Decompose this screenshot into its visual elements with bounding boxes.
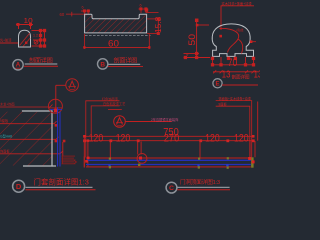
bubble A bbox=[13, 60, 23, 70]
svg-text:15.8: 15.8 bbox=[154, 16, 163, 33]
red dot in arch bbox=[25, 42, 27, 44]
rail blue top bbox=[86, 159, 251, 161]
chain tick dots bbox=[83, 135, 255, 142]
red horizontal inside circle bbox=[49, 107, 63, 109]
dim 50 vertical bbox=[184, 19, 211, 59]
junction marker x199 olive top bbox=[198, 158, 200, 160]
dimension 10 line bbox=[16, 24, 33, 30]
line from bubble to right with label bbox=[125, 121, 172, 123]
svg-text:70: 70 bbox=[228, 57, 238, 69]
red dots on frame edge bbox=[54, 109, 58, 113]
dim 70 under base bbox=[211, 57, 254, 67]
junction marker x227 olive top bbox=[227, 157, 229, 159]
svg-text:剖面详图: 剖面详图 bbox=[114, 56, 138, 64]
svg-text:1.2: 1.2 bbox=[33, 34, 38, 38]
svg-text:13: 13 bbox=[254, 70, 260, 81]
svg-text:4: 4 bbox=[186, 54, 190, 56]
svg-text:x贴缝: x贴缝 bbox=[236, 27, 244, 32]
title E underline grey bbox=[177, 186, 229, 188]
title E underline red bbox=[177, 189, 230, 191]
svg-text:13: 13 bbox=[222, 70, 231, 81]
svg-text:9厘板: 9厘板 bbox=[219, 101, 228, 106]
leader 2 bbox=[0, 121, 57, 124]
rail red top bbox=[86, 157, 251, 159]
callout circle on corner bbox=[48, 99, 62, 113]
svg-text:E: E bbox=[215, 82, 219, 88]
junction marker x227 blue bbox=[226, 164, 228, 166]
far right extension vertical bbox=[257, 102, 259, 141]
bubble C top-right bbox=[213, 79, 222, 88]
svg-text:B: B bbox=[100, 61, 105, 68]
left end post red bbox=[83, 156, 85, 167]
left small dot leader bbox=[196, 24, 199, 27]
rail red bottom bbox=[86, 166, 251, 168]
red jamb line bbox=[62, 142, 64, 156]
svg-text:120: 120 bbox=[205, 132, 220, 144]
bubble D bbox=[13, 180, 25, 192]
svg-text:6: 6 bbox=[82, 6, 84, 10]
title underline red bbox=[222, 84, 258, 86]
svg-text:C: C bbox=[169, 185, 174, 192]
title B underline red bbox=[108, 65, 143, 67]
svg-text:270: 270 bbox=[164, 133, 180, 145]
leader 3 bbox=[0, 137, 59, 140]
junction marker x199 blue bbox=[197, 164, 199, 166]
title B underline grey bbox=[109, 63, 141, 65]
right small dimension cluster bbox=[32, 29, 46, 48]
svg-text:门洞顶面详图1:3: 门洞顶面详图1:3 bbox=[180, 178, 220, 186]
svg-text:6: 6 bbox=[140, 4, 142, 8]
svg-text:白色乳胶漆工艺: 白色乳胶漆工艺 bbox=[103, 101, 125, 106]
title A underline grey bbox=[25, 63, 58, 65]
arch hatch bbox=[20, 33, 30, 46]
dim 13 row bbox=[213, 71, 258, 73]
dim 60 line bbox=[84, 46, 149, 48]
red decorative curves inside cap bbox=[220, 28, 239, 52]
blue jamb lines bbox=[57, 107, 59, 166]
dim 60 extension lines bbox=[83, 34, 85, 49]
svg-text:门套剖面详图1:3: 门套剖面详图1:3 bbox=[34, 178, 90, 187]
blue horizontal inside circle bbox=[50, 109, 62, 111]
leader 4 bbox=[0, 151, 63, 154]
leader wire bbox=[0, 42, 19, 44]
red dot at cap right edge bbox=[250, 40, 253, 43]
wall hatch region bbox=[0, 112, 52, 166]
section cut bubble bbox=[114, 116, 126, 128]
left end dots bbox=[87, 157, 90, 160]
junction marker x110 olive bottom bbox=[109, 166, 111, 168]
handrail profile outline bbox=[212, 24, 253, 57]
dim 15.8 vertical right bbox=[145, 9, 159, 35]
svg-text:实木扶手+饰面+清漆: 实木扶手+饰面+清漆 bbox=[222, 1, 253, 6]
callout circle on rails (red) bbox=[137, 154, 147, 164]
junction marker x110 olive top bbox=[109, 158, 111, 160]
bubble B bbox=[98, 59, 108, 69]
junction marker x199 olive bottom bbox=[198, 166, 200, 168]
svg-text:60: 60 bbox=[108, 38, 119, 49]
junction marker x227 olive bottom bbox=[227, 166, 229, 168]
section bubble above D bbox=[66, 79, 79, 92]
arch profile outline bbox=[19, 30, 31, 47]
svg-text:饰面板: 饰面板 bbox=[0, 148, 10, 153]
title D underline red bbox=[26, 189, 96, 191]
svg-text:木龙+饰面: 木龙+饰面 bbox=[0, 102, 15, 107]
top leader underline and drop bbox=[221, 6, 254, 30]
svg-text:2车边银镜平面装饰: 2车边银镜平面装饰 bbox=[151, 117, 178, 122]
svg-text:D: D bbox=[16, 182, 22, 191]
right end olive post bbox=[251, 157, 254, 167]
svg-text:50: 50 bbox=[187, 34, 197, 46]
title D underline grey bbox=[26, 186, 93, 188]
rail blue bottom bbox=[86, 164, 251, 166]
bubble C bottom bbox=[166, 182, 177, 193]
svg-text:60: 60 bbox=[60, 12, 65, 17]
dimension chain row B line bbox=[84, 140, 253, 142]
small top dim left bbox=[81, 6, 90, 15]
architrave ladder profile bbox=[62, 156, 77, 164]
svg-text:120: 120 bbox=[234, 132, 249, 144]
small top dim right bbox=[139, 4, 159, 14]
section bubble leader wire bbox=[56, 84, 66, 86]
svg-text:120: 120 bbox=[89, 132, 104, 144]
olive dot near circle bbox=[138, 164, 140, 166]
vertical drop lines to rails bbox=[84, 137, 200, 167]
red dot in cap bbox=[219, 35, 222, 38]
svg-text:剖面详图: 剖面详图 bbox=[29, 56, 53, 64]
svg-text:G型HAB: G型HAB bbox=[0, 134, 12, 139]
profile bottom grey line bbox=[85, 35, 151, 37]
title A underline red bbox=[24, 65, 58, 67]
channel profile outline bbox=[85, 14, 147, 33]
door frame grey outline bbox=[22, 111, 52, 166]
right end red dots bbox=[248, 157, 251, 160]
leader 1 bbox=[0, 105, 53, 108]
right end verticals bbox=[249, 141, 251, 157]
red drop line through circle bbox=[55, 85, 57, 110]
svg-text:9厘板: 9厘板 bbox=[0, 118, 9, 123]
svg-text:A: A bbox=[16, 62, 21, 69]
small circle symbol bbox=[34, 40, 38, 44]
junction marker x110 blue bbox=[108, 164, 110, 166]
svg-text:乳+胶漆: 乳+胶漆 bbox=[0, 38, 12, 43]
svg-text:剖面详图: 剖面详图 bbox=[232, 73, 250, 80]
svg-text:120: 120 bbox=[116, 132, 131, 144]
dimension chain row A line bbox=[84, 135, 253, 137]
red dot on rail bbox=[139, 157, 142, 160]
top red partial line bbox=[108, 109, 122, 111]
